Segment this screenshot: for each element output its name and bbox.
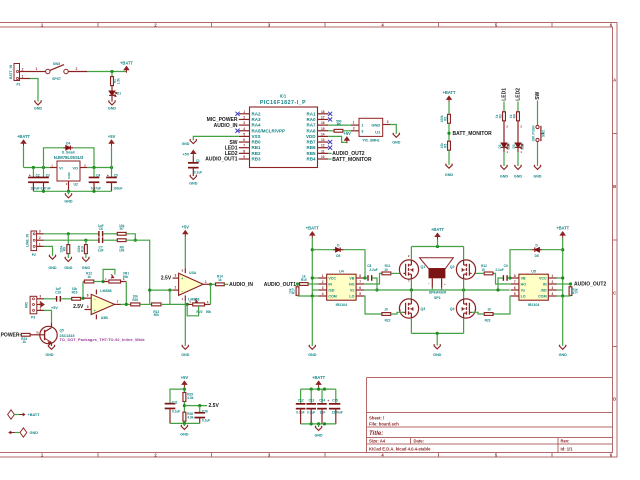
svg-text:RA4: RA4 xyxy=(252,123,261,128)
border row ticks xyxy=(613,133,618,135)
LED D3 xyxy=(517,129,519,144)
svg-text:NJM78L05SU3: NJM78L05SU3 xyxy=(54,155,84,160)
svg-text:100k: 100k xyxy=(440,115,444,122)
svg-text:Sheet: /: Sheet: / xyxy=(369,416,385,421)
svg-text:−: − xyxy=(428,282,430,286)
ground U3A xyxy=(182,345,189,350)
resistor R25 4.3k xyxy=(183,393,186,402)
svg-text:RA5/MCLR/VPP: RA5/MCLR/VPP xyxy=(252,128,286,133)
capacitor C7 1uF xyxy=(98,237,99,243)
svg-text:IR2104: IR2104 xyxy=(336,303,348,307)
IC1 left pin 2 RA3 xyxy=(239,118,250,120)
IC IC1 PIC16F1827 body xyxy=(250,107,318,168)
svg-text:1: 1 xyxy=(36,67,38,71)
svg-text:50k: 50k xyxy=(123,275,129,279)
LED D1 xyxy=(109,91,115,95)
wire VCC row U5 xyxy=(557,277,563,279)
svg-text:B: B xyxy=(613,184,616,189)
speaker SP1 xyxy=(420,258,454,269)
junction U3B out xyxy=(125,303,128,306)
svg-text:Title:: Title: xyxy=(369,431,383,437)
svg-text:Q3: Q3 xyxy=(421,307,426,311)
label AUDIO_OUT2 at RB5 xyxy=(328,152,331,154)
svg-text:2.2uF: 2.2uF xyxy=(369,268,377,272)
svg-text:AUDIO_IN: AUDIO_IN xyxy=(229,282,253,288)
svg-text:RB1: RB1 xyxy=(252,145,261,150)
svg-text:R23: R23 xyxy=(485,318,491,322)
svg-text:RB2: RB2 xyxy=(252,151,261,156)
wire D3 to gnd xyxy=(517,147,519,152)
svg-text:10k: 10k xyxy=(575,288,579,294)
svg-text:2: 2 xyxy=(322,280,324,284)
svg-text:18: 18 xyxy=(321,110,325,114)
svg-text:A: A xyxy=(613,78,616,83)
IC1 right pin 15 RA6 xyxy=(318,130,329,132)
junction at R1 top xyxy=(110,70,113,73)
svg-text:C12: C12 xyxy=(298,398,304,402)
svg-text:GND: GND xyxy=(189,182,198,186)
U5 right pin 2 IN xyxy=(548,283,556,285)
wire +BATT col to gnd xyxy=(311,296,313,346)
svg-text:PIC16F1827-I_P: PIC16F1827-I_P xyxy=(260,100,306,106)
junction IN node U5 xyxy=(569,282,572,285)
ground P2 xyxy=(49,255,56,260)
junction VB node xyxy=(363,276,366,279)
svg-text:13: 13 xyxy=(321,138,325,142)
mosfet Q4 xyxy=(456,299,475,318)
svg-text:+: + xyxy=(94,309,96,313)
op-amp U3B body xyxy=(91,294,114,314)
resistor R12 10 xyxy=(484,272,493,275)
svg-text:10: 10 xyxy=(487,307,491,311)
IC1 left pin 6 RB0 xyxy=(239,141,250,143)
mosfet Q2 xyxy=(456,260,475,279)
svg-text:1k: 1k xyxy=(22,340,26,344)
wire D5 to VB xyxy=(344,250,366,278)
wire C9 to Vs riser xyxy=(498,278,503,290)
svg-text:C15: C15 xyxy=(332,398,338,402)
svg-text:7: 7 xyxy=(514,280,516,284)
svg-text:IR2104: IR2104 xyxy=(528,303,540,307)
capacitor C5 100uF xyxy=(111,168,113,178)
svg-text:D3: D3 xyxy=(512,144,516,148)
wire IN row U5 xyxy=(557,283,571,285)
svg-text:+5V: +5V xyxy=(108,134,116,139)
svg-text:−: − xyxy=(94,297,96,301)
U5 left pin 8 VB xyxy=(511,277,519,279)
svg-text:COM: COM xyxy=(328,295,336,299)
svg-text:10k: 10k xyxy=(440,143,444,149)
ground Q5 emitter xyxy=(48,345,55,350)
wire regulator output rail xyxy=(87,167,112,169)
svg-text:100uF: 100uF xyxy=(30,186,39,190)
U5 left pin 7 HO xyxy=(511,283,519,285)
U4 left pin 3 /SD xyxy=(319,289,327,291)
svg-text:VSS: VSS xyxy=(252,134,261,139)
svg-text:5: 5 xyxy=(514,292,516,296)
svg-text:3: 3 xyxy=(243,121,245,125)
capacitor C1 0.1uF xyxy=(188,162,199,164)
svg-text:C6: C6 xyxy=(99,227,103,231)
+BATT rail over bridge xyxy=(411,246,463,248)
svg-text:VCC: VCC xyxy=(328,277,336,281)
svg-text:LED: LED xyxy=(507,143,511,150)
svg-text:C1: C1 xyxy=(196,159,200,163)
svg-text:RB5: RB5 xyxy=(306,151,315,156)
svg-text:7: 7 xyxy=(359,280,361,284)
junction U3A minus left xyxy=(148,289,151,292)
U4 right pin 6 Vs xyxy=(356,289,364,291)
wire R12 to Q2 gate xyxy=(472,272,485,274)
svg-text:100k: 100k xyxy=(77,245,81,252)
resistor R2 100k xyxy=(448,114,451,123)
resistor R23 10 xyxy=(484,313,493,316)
svg-text:3: 3 xyxy=(353,126,355,130)
svg-text:+BATT: +BATT xyxy=(28,413,41,417)
svg-text:VB: VB xyxy=(521,277,526,281)
svg-text:GND: GND xyxy=(500,174,509,178)
svg-text:SPEAKER: SPEAKER xyxy=(429,291,447,295)
svg-text:D1: D1 xyxy=(117,92,121,96)
resistor R24 1k xyxy=(21,333,30,336)
svg-text:2.5V: 2.5V xyxy=(73,304,84,310)
wire Q4 drain xyxy=(463,290,465,299)
svg-text:LED1: LED1 xyxy=(501,88,507,101)
svg-text:+: + xyxy=(107,173,109,177)
svg-text:+: + xyxy=(29,173,31,177)
svg-text:1: 1 xyxy=(22,74,24,78)
svg-text:7: 7 xyxy=(243,144,245,148)
svg-text:MIC_POWER: MIC_POWER xyxy=(0,333,20,339)
wire LO to R22 xyxy=(364,296,382,314)
svg-text:AUDIO_OUT1: AUDIO_OUT1 xyxy=(205,157,237,163)
svg-text:COM: COM xyxy=(538,295,546,299)
wire bottom rail to gnd xyxy=(436,333,438,345)
regulator U2 NJM78L05SU3 xyxy=(57,161,80,181)
capacitor C2 100uF xyxy=(32,168,34,178)
svg-text:0,47uF: 0,47uF xyxy=(41,186,51,190)
U3A V- pin to gnd xyxy=(184,295,186,301)
wire Q1 drain to +BATT rail xyxy=(410,247,412,260)
svg-text:IN: IN xyxy=(543,283,547,287)
svg-text:2: 2 xyxy=(243,115,245,119)
no-connect RB7 xyxy=(328,140,332,144)
svg-text:+5V: +5V xyxy=(182,224,190,229)
svg-text:2: 2 xyxy=(76,67,78,71)
svg-text:HO: HO xyxy=(521,283,527,287)
svg-text:10: 10 xyxy=(321,155,325,159)
svg-text:RA0: RA0 xyxy=(306,117,315,122)
svg-text:GND: GND xyxy=(34,107,43,111)
capacitor C15 2200uF xyxy=(335,389,337,404)
svg-text:MIC: MIC xyxy=(24,301,28,308)
capacitor C16 0.1uF xyxy=(199,406,201,413)
svg-text:3: 3 xyxy=(39,230,41,234)
resistor R13 50k xyxy=(152,303,161,306)
wire D1 to gnd xyxy=(111,95,113,102)
ground at VSS xyxy=(190,139,197,144)
power +5V at VDD xyxy=(344,141,347,143)
junction line mix node xyxy=(134,239,137,242)
capacitor C6 1uF xyxy=(98,231,99,237)
svg-text:RB3: RB3 xyxy=(252,157,261,162)
IC1 right pin 14 VDD xyxy=(318,135,329,137)
IC1 right pin 10 RB4 xyxy=(318,158,329,160)
U5 left pin 6 Vs xyxy=(511,289,519,291)
U5 right pin 1 VCC xyxy=(548,277,556,279)
wire VDD to +5V xyxy=(328,136,344,142)
svg-text:U1: U1 xyxy=(375,130,381,135)
svg-text:1: 1 xyxy=(243,110,245,114)
wire C10 to R19 xyxy=(61,298,72,300)
svg-text:7: 7 xyxy=(117,300,119,304)
ground under SW2 xyxy=(534,165,541,170)
svg-text:Q5: Q5 xyxy=(60,329,64,333)
wiper bridge wire xyxy=(103,269,115,281)
svg-text:GND: GND xyxy=(433,353,442,357)
resistor R17 10k pulldown xyxy=(297,284,299,287)
svg-text:+: + xyxy=(444,282,446,286)
wire VCC row xyxy=(312,277,318,279)
svg-text:1: 1 xyxy=(205,280,207,284)
diode D6 xyxy=(539,249,542,251)
power +5V reference xyxy=(182,381,187,387)
IC1 left pin 8 RB2 xyxy=(239,152,250,154)
svg-text:GND: GND xyxy=(180,432,189,436)
svg-text:1k: 1k xyxy=(509,114,513,118)
ground under D2 xyxy=(501,165,508,170)
U3A V+ pin to +5V xyxy=(184,269,186,274)
svg-text:Q1: Q1 xyxy=(421,265,426,269)
svg-text:0.1uF: 0.1uF xyxy=(202,419,210,423)
svg-text:GND: GND xyxy=(67,171,71,179)
IC1 right pin 16 RA7 xyxy=(318,124,329,126)
trimmer RV2 50k xyxy=(187,303,193,305)
resistor R4 1k xyxy=(517,112,520,121)
svg-text:1uF: 1uF xyxy=(98,249,104,253)
IC1 left pin 9 RB3 xyxy=(239,158,250,160)
diode D4 D_Small xyxy=(63,147,65,149)
power +BATT divider xyxy=(447,96,452,102)
capacitor C12 0.1uF xyxy=(300,389,302,404)
wire to U3A minus xyxy=(150,289,173,291)
svg-text:0.1uF: 0.1uF xyxy=(172,410,180,414)
svg-text:VDD: VDD xyxy=(306,134,316,139)
wire P1 pin1 to gnd xyxy=(30,79,38,102)
svg-text:+5V: +5V xyxy=(181,375,189,380)
wire R23 to Q4 gate xyxy=(472,312,485,314)
svg-text:GND: GND xyxy=(181,353,190,357)
svg-text:D: D xyxy=(613,397,616,402)
svg-text:RA6: RA6 xyxy=(306,128,315,133)
wire LED2 to resistor xyxy=(517,102,519,112)
svg-text:9: 9 xyxy=(243,155,245,159)
U3B V+ stub xyxy=(95,290,97,295)
no-connect RA2 xyxy=(235,112,239,116)
capacitor C9 2.2uF xyxy=(508,277,510,279)
svg-text:R6: R6 xyxy=(337,122,341,126)
svg-text:GND: GND xyxy=(392,140,401,144)
wire 2.5V node right xyxy=(184,405,207,407)
svg-text:R19: R19 xyxy=(72,290,78,294)
svg-text:RV2: RV2 xyxy=(196,310,202,314)
junction C4 xyxy=(92,166,95,169)
power +BATT top-left xyxy=(124,67,129,73)
resistor R16 10k pulldown xyxy=(570,284,572,287)
U4 right pin 5 LO xyxy=(356,295,364,297)
wire P2 pin3 to C6 xyxy=(44,233,99,235)
svg-text:10k: 10k xyxy=(119,249,125,253)
ground U4 column xyxy=(309,345,316,350)
svg-text:VI: VI xyxy=(59,165,63,170)
wire /SD tie xyxy=(312,289,318,291)
junction trimmer left xyxy=(102,280,105,283)
ground cap bank xyxy=(315,426,322,431)
wire Q3 drain xyxy=(410,290,412,299)
U3A output pin xyxy=(203,283,209,285)
U3B minus input xyxy=(83,297,91,299)
svg-text:SW2: SW2 xyxy=(542,130,546,137)
svg-text:Id: 1/1: Id: 1/1 xyxy=(561,447,574,452)
capacitor C13 0.1uF xyxy=(310,389,312,404)
resonator U1 YIC_8MHz body xyxy=(359,118,383,136)
wire to regulator gnd xyxy=(68,191,70,194)
svg-text:AUDIO_IN: AUDIO_IN xyxy=(214,123,238,129)
svg-text:0.1uF: 0.1uF xyxy=(194,170,202,174)
svg-text:GND: GND xyxy=(308,353,317,357)
svg-text:1: 1 xyxy=(322,274,324,278)
capacitor C3 0,47uF xyxy=(43,168,45,178)
junction U3A out xyxy=(209,283,212,286)
Vs rail xyxy=(364,289,509,291)
wire ref to gnd xyxy=(183,423,185,426)
wire SW2 to gnd xyxy=(537,141,539,144)
svg-text:+BATT: +BATT xyxy=(431,227,444,232)
svg-text:4: 4 xyxy=(552,292,554,296)
svg-text:6: 6 xyxy=(87,294,89,298)
svg-text:2.2uF: 2.2uF xyxy=(495,268,503,272)
power +BATT bridge xyxy=(435,233,440,239)
wire /SD tie U5 xyxy=(557,289,563,291)
wire D6 to VB xyxy=(510,250,532,278)
svg-text:GND: GND xyxy=(514,174,523,178)
wire trimmer to output node xyxy=(125,282,127,305)
wire COM row xyxy=(298,295,319,297)
svg-text:C14: C14 xyxy=(319,398,325,402)
svg-text:SPST: SPST xyxy=(52,77,62,81)
svg-text:5: 5 xyxy=(87,305,89,309)
ground under P1 xyxy=(35,100,42,105)
svg-text:U3A: U3A xyxy=(189,271,197,275)
regulator ground rail xyxy=(33,190,111,192)
svg-text:RA1: RA1 xyxy=(306,111,315,116)
wire Q3 source to bottom rail xyxy=(410,318,412,333)
svg-text:IC1: IC1 xyxy=(280,94,287,99)
svg-text:Vs: Vs xyxy=(350,289,354,293)
svg-text:11: 11 xyxy=(321,149,325,153)
svg-text:+: + xyxy=(327,399,329,403)
svg-text:GND: GND xyxy=(559,353,568,357)
svg-text:GND: GND xyxy=(371,123,380,128)
svg-text:4: 4 xyxy=(243,127,245,131)
svg-text:C: C xyxy=(613,291,616,296)
junction VCC xyxy=(311,276,314,279)
U4 right pin 7 HO xyxy=(356,283,364,285)
wire Q2 drain to +BATT rail xyxy=(463,247,465,260)
svg-text:100uF: 100uF xyxy=(113,186,122,190)
wire COM row U5 xyxy=(557,295,571,297)
IC1 right pin 17 RA0 xyxy=(318,118,329,120)
wire C6 to R7 xyxy=(103,233,117,235)
svg-text:2: 2 xyxy=(39,236,41,240)
svg-text:Q4: Q4 xyxy=(450,307,455,311)
svg-text:KiCad E.D.A. kicad 4.0.4-stab: KiCad E.D.A. kicad 4.0.4-stable xyxy=(369,447,431,452)
svg-text:/SD: /SD xyxy=(541,289,547,293)
svg-text:15: 15 xyxy=(321,127,325,131)
power +BATT U5 xyxy=(560,232,565,238)
wire Q2 source to Vs rail xyxy=(463,279,465,290)
svg-text:R7: R7 xyxy=(120,227,124,231)
resonator pin2 to gnd xyxy=(383,124,390,126)
junction Vs riser U5 xyxy=(496,288,499,291)
wire P2 pin2 to C7 xyxy=(44,239,99,241)
wire cap bank to gnd xyxy=(318,424,320,427)
wire HO to R11 xyxy=(364,273,382,284)
junction C3 xyxy=(42,166,45,169)
junction U3A minus right xyxy=(168,289,171,292)
wire RA7 to resonator xyxy=(328,124,351,126)
wire RA6 to R6 xyxy=(328,130,334,132)
svg-text:100k: 100k xyxy=(59,245,63,252)
svg-text:GND: GND xyxy=(108,107,117,111)
U4 left pin 2 IN xyxy=(319,283,327,285)
svg-text:R20: R20 xyxy=(132,298,138,302)
svg-text:6: 6 xyxy=(243,138,245,142)
no-connect RA0 xyxy=(328,117,332,121)
svg-text:/SD: /SD xyxy=(328,289,334,293)
svg-text:4.3k: 4.3k xyxy=(187,416,193,420)
IC1 right pin 13 RB7 xyxy=(318,141,329,143)
resistor R12f 1k feedback xyxy=(83,281,84,283)
svg-text:5: 5 xyxy=(243,132,245,136)
ground bridge xyxy=(434,344,441,349)
junction IN node xyxy=(296,282,299,285)
ground under divider xyxy=(446,164,453,169)
junction VCC U5 xyxy=(561,276,564,279)
svg-text:GND: GND xyxy=(30,431,39,435)
svg-text:SP1: SP1 xyxy=(434,296,441,300)
resistor R5 10k xyxy=(448,141,451,150)
svg-text:8: 8 xyxy=(359,274,361,278)
svg-text:12: 12 xyxy=(321,144,325,148)
junction Vs riser xyxy=(375,288,378,291)
svg-text:BATT_IN: BATT_IN xyxy=(9,64,13,79)
svg-text:+5V: +5V xyxy=(343,131,351,136)
wire D2 to gnd xyxy=(503,147,505,152)
cap bank top rail xyxy=(301,388,336,390)
wire C8 to Vs riser xyxy=(372,278,377,290)
LED D2 xyxy=(503,129,505,144)
cap bank bottom rail xyxy=(301,423,336,425)
switch SW2 SW_PUSH xyxy=(537,124,539,127)
resistor R3 1k xyxy=(503,112,506,121)
svg-text:LED: LED xyxy=(521,143,525,150)
resistor R7 10k xyxy=(117,232,126,235)
svg-text:R22: R22 xyxy=(385,318,391,322)
junction R10 top xyxy=(84,239,87,242)
wire R20 to mix node xyxy=(140,303,150,305)
resistor R22 10 xyxy=(382,313,391,316)
